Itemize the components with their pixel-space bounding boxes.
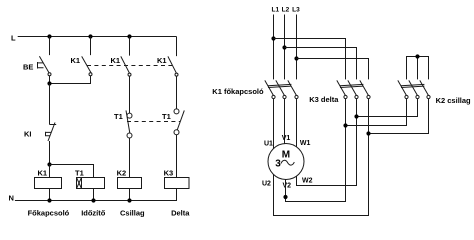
svg-text:L2: L2 (282, 7, 290, 14)
svg-text:K3: K3 (164, 168, 174, 177)
svg-text:L: L (11, 34, 16, 43)
svg-text:3: 3 (275, 158, 281, 169)
svg-text:Főkapcsoló: Főkapcsoló (28, 208, 70, 217)
svg-text:W2: W2 (302, 178, 313, 185)
svg-text:Időzítő: Időzítő (81, 208, 106, 217)
svg-text:T1: T1 (75, 168, 84, 177)
svg-text:K1: K1 (157, 56, 167, 65)
svg-text:V2: V2 (283, 183, 292, 190)
svg-text:U2: U2 (262, 180, 271, 187)
svg-text:K2: K2 (117, 168, 127, 177)
svg-text:K1: K1 (38, 168, 48, 177)
svg-text:K1: K1 (71, 56, 81, 65)
svg-text:K3 delta: K3 delta (309, 95, 339, 104)
svg-text:K2 csillag: K2 csillag (436, 96, 471, 105)
svg-text:BE: BE (23, 63, 33, 72)
svg-text:V1: V1 (282, 135, 291, 142)
svg-text:N: N (9, 193, 14, 202)
svg-text:KI: KI (24, 130, 32, 139)
svg-text:L3: L3 (292, 7, 300, 14)
svg-text:L1: L1 (272, 7, 280, 14)
svg-text:M: M (282, 150, 290, 161)
svg-text:U1: U1 (264, 140, 273, 147)
svg-text:Delta: Delta (171, 208, 190, 217)
svg-text:W1: W1 (300, 140, 311, 147)
svg-text:K1: K1 (111, 56, 121, 65)
svg-text:Csillag: Csillag (120, 208, 145, 217)
svg-text:T1: T1 (162, 112, 171, 121)
svg-text:K1 főkapcsoló: K1 főkapcsoló (212, 87, 264, 96)
svg-text:T1: T1 (114, 112, 123, 121)
